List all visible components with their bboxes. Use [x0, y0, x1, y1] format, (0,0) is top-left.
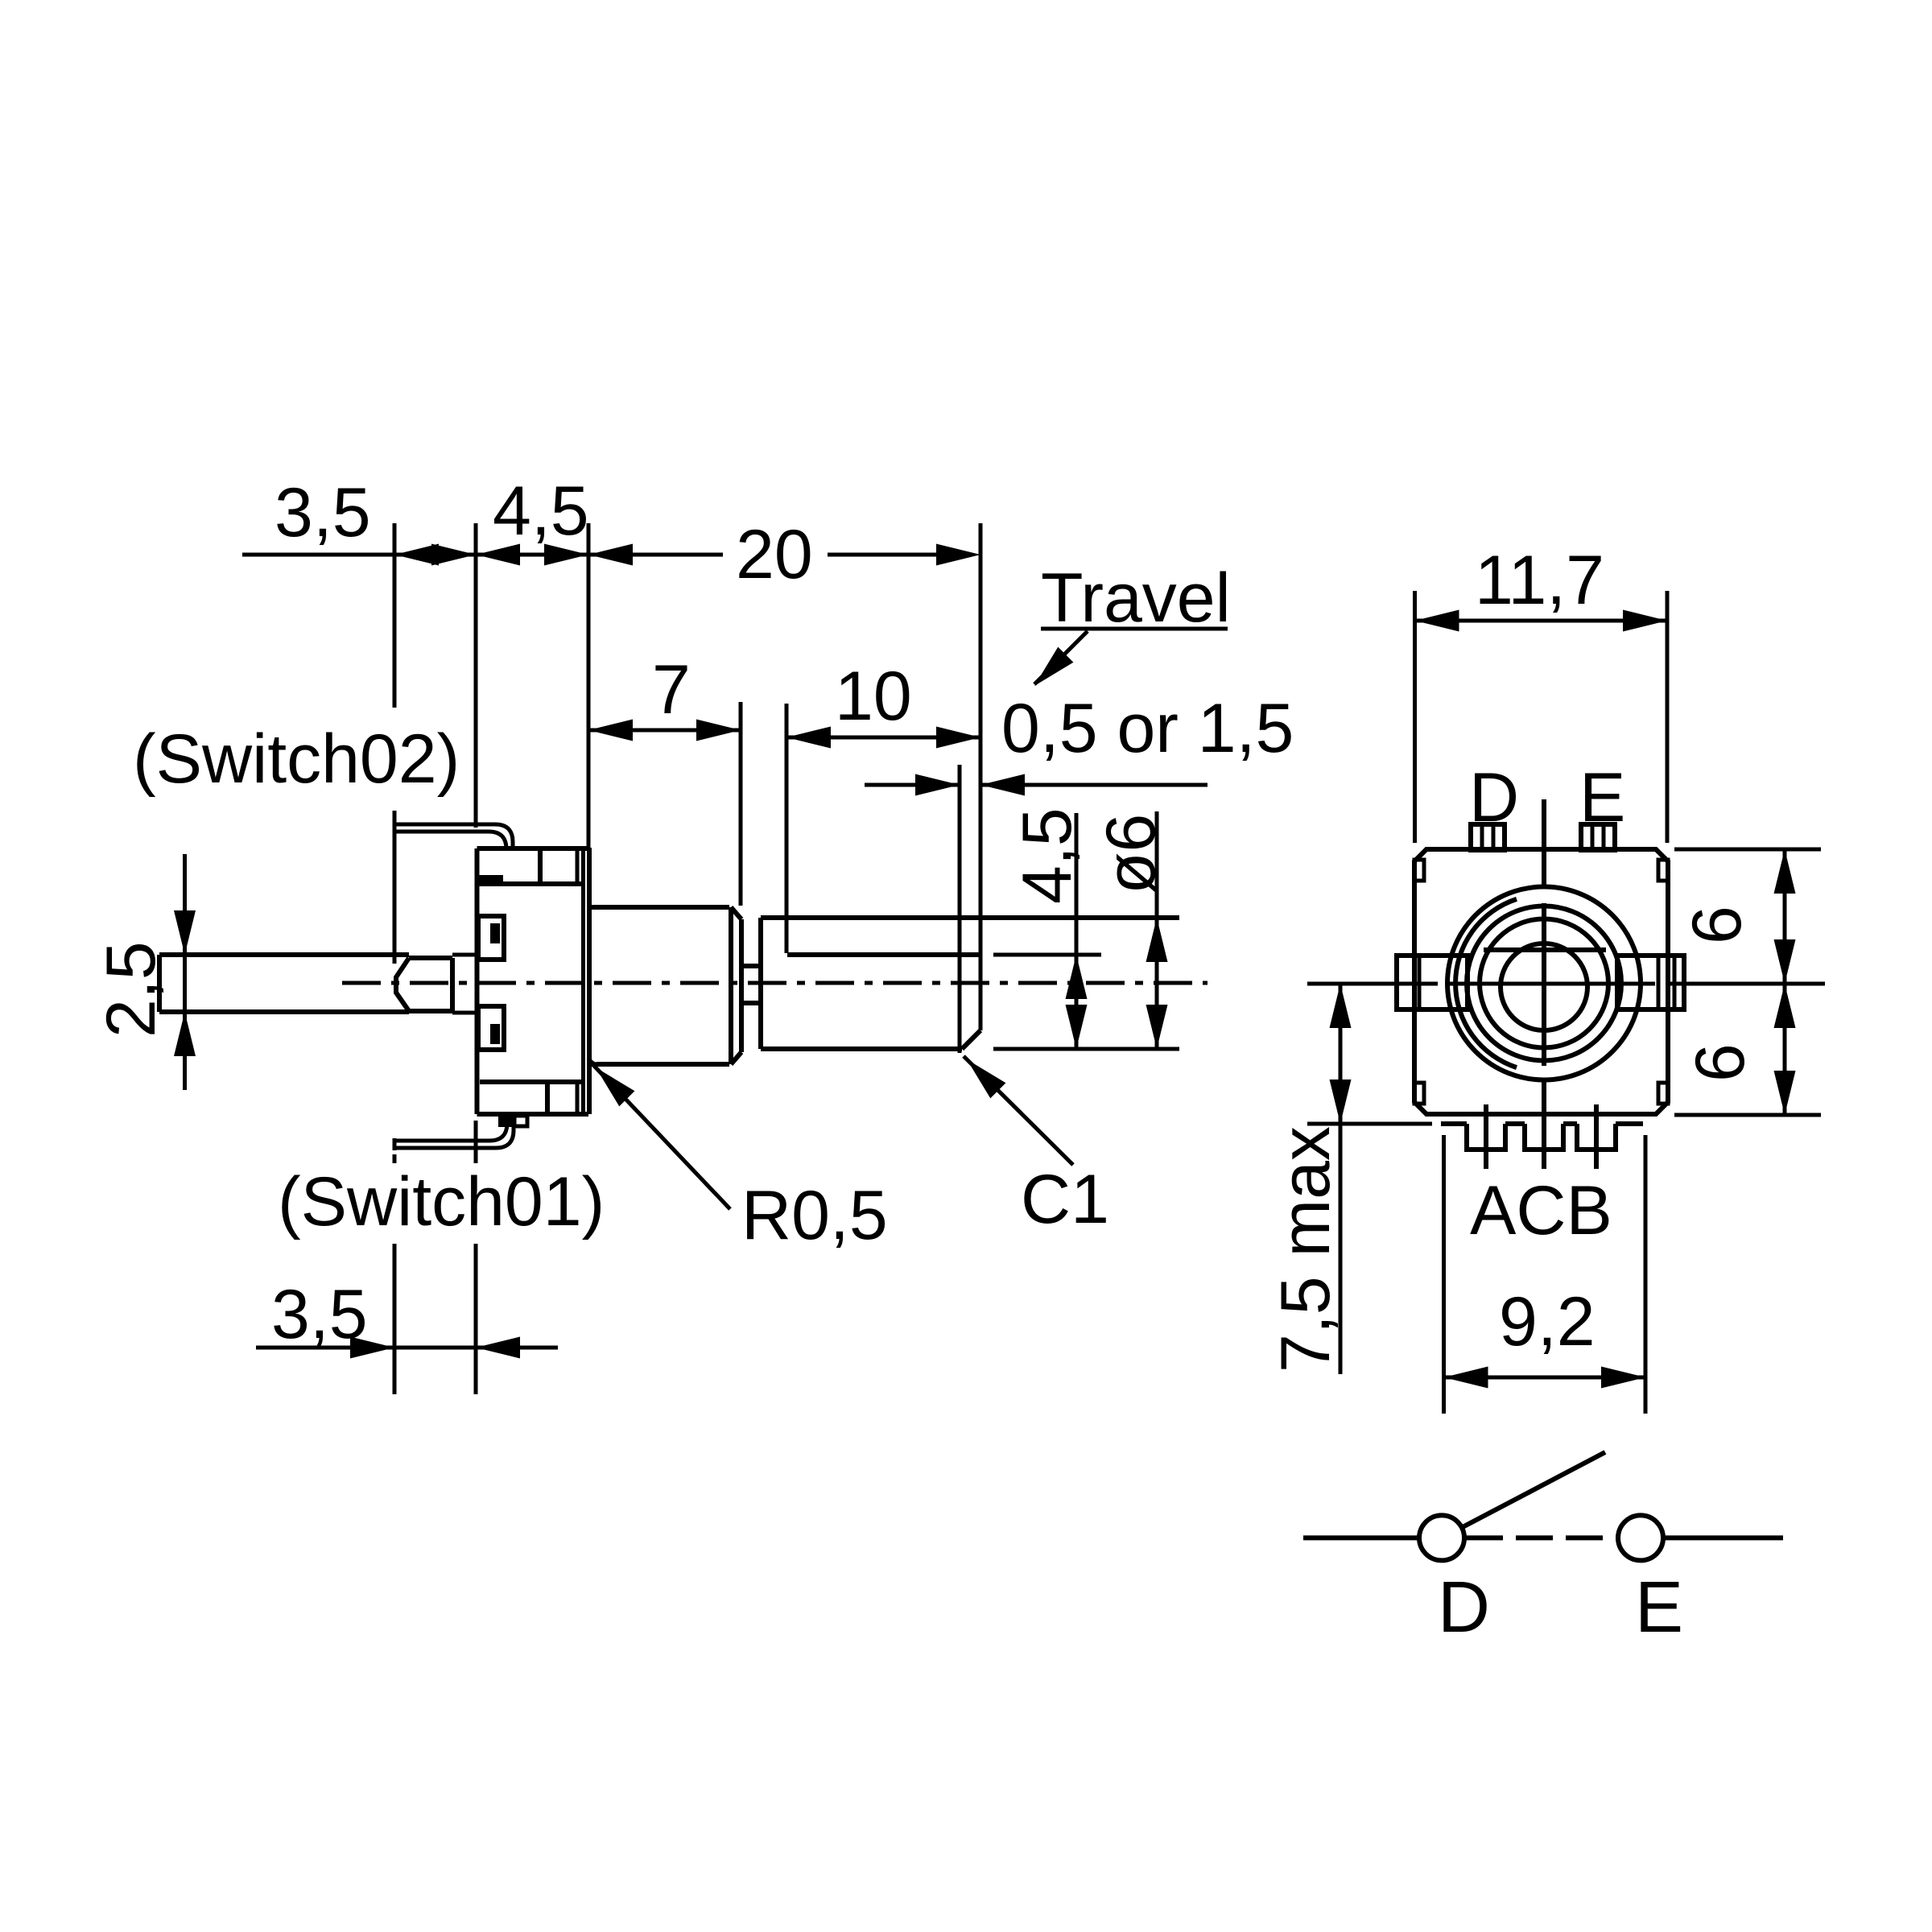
svg-text:7,5 max: 7,5 max — [1267, 1126, 1344, 1373]
svg-text:E: E — [1635, 1567, 1683, 1648]
svg-text:E: E — [1579, 759, 1625, 836]
svg-text:D: D — [1469, 759, 1519, 836]
svg-text:R0,5: R0,5 — [741, 1177, 888, 1254]
svg-text:11,7: 11,7 — [1475, 542, 1604, 619]
svg-text:2,5: 2,5 — [93, 941, 170, 1038]
svg-text:ø6: ø6 — [1092, 814, 1170, 894]
svg-text:(Switch02): (Switch02) — [133, 720, 460, 798]
svg-text:9,2: 9,2 — [1499, 1283, 1596, 1360]
svg-text:3,5: 3,5 — [271, 1276, 368, 1353]
svg-text:(Switch01): (Switch01) — [278, 1163, 605, 1241]
svg-text:10: 10 — [835, 658, 912, 735]
svg-text:4,5: 4,5 — [493, 473, 589, 550]
svg-text:3,5: 3,5 — [275, 474, 371, 551]
svg-text:6: 6 — [1682, 1043, 1759, 1082]
svg-text:Travel: Travel — [1041, 559, 1231, 637]
svg-text:C1: C1 — [1021, 1161, 1109, 1238]
svg-text:D: D — [1438, 1567, 1490, 1648]
svg-text:0,5 or 1,5: 0,5 or 1,5 — [1001, 690, 1294, 767]
svg-text:4,5: 4,5 — [1009, 807, 1086, 904]
svg-text:ACB: ACB — [1470, 1172, 1612, 1249]
svg-text:20: 20 — [736, 516, 813, 593]
svg-text:6: 6 — [1678, 906, 1756, 944]
svg-text:7: 7 — [652, 651, 691, 729]
